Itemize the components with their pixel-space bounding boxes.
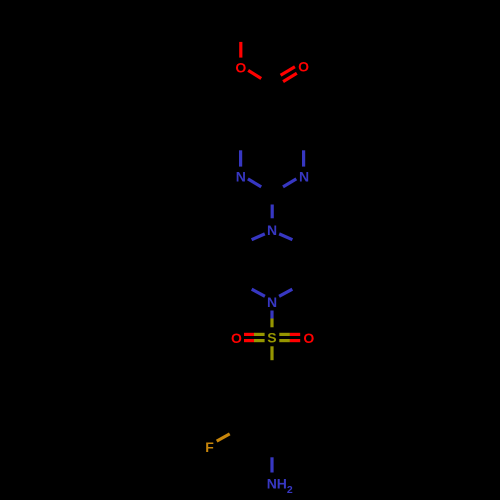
bond CH3-O (ester), O half — [239, 42, 242, 58]
svg-text:N: N — [267, 222, 277, 238]
bond S=O right, line 1, O half — [290, 333, 300, 336]
piperazine bond N8-C(low-right), N half — [279, 289, 292, 296]
bond S=O right, line 2, S half — [279, 339, 290, 342]
svg-text:O: O — [298, 59, 309, 75]
bond C5'-F, F half — [217, 434, 230, 441]
bond C2-N4 (pyrimidine to piperazine), N half — [271, 205, 274, 219]
svg-text:N: N — [236, 169, 246, 185]
bond S-C1' (to benzene), S half — [270, 346, 273, 360]
bond S=O left, line 2, O half — [244, 339, 254, 342]
bond N8-S, S half — [270, 319, 273, 328]
bond N8-S, N half — [270, 311, 273, 319]
svg-text:O: O — [235, 59, 246, 75]
svg-text:O: O — [231, 330, 242, 346]
pyrimidine bond C4-N3, N half (left vertical) — [239, 150, 242, 166]
svg-text:F: F — [205, 439, 214, 455]
svg-text:N: N — [267, 294, 277, 310]
bond C=O double, line 2, O half — [283, 73, 297, 81]
piperazine bond N4-C(up-left), N half — [252, 234, 265, 240]
svg-text:O: O — [303, 330, 314, 346]
bond S=O left, line 1, S half — [254, 333, 265, 336]
bond S=O right, line 1, S half — [279, 333, 290, 336]
pyrimidine bond N1-C2, N half (right diagonal) — [283, 179, 296, 187]
piperazine bond N8-C(low-left), N half — [252, 289, 265, 296]
svg-text:N: N — [299, 169, 309, 185]
bond O-C(carbonyl), O half — [248, 70, 261, 78]
bond C4'-NH2, N half — [270, 457, 273, 472]
bond S=O left, line 1, O half — [244, 333, 254, 336]
piperazine bond N4-C(up-right), N half — [279, 234, 292, 240]
pyrimidine bond N3-C2, N half (left diagonal) — [248, 179, 261, 187]
bond C=O double, line 1, O half — [281, 67, 295, 75]
pyrimidine bond C6-N1, N half (right vertical) — [302, 150, 305, 166]
bond S=O left, line 2, S half — [254, 339, 265, 342]
bond S=O right, line 2, O half — [290, 339, 300, 342]
svg-text:S: S — [267, 329, 276, 345]
